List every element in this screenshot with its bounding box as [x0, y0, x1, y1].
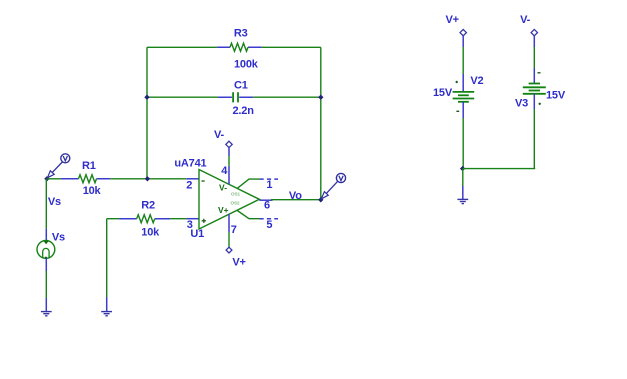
battery V2 — [453, 92, 475, 102]
svg-text:10k: 10k — [83, 185, 102, 197]
wire feedback top horizontal right part — [262, 46, 321, 48]
ground (supply) — [457, 199, 468, 203]
svg-text:V3: V3 — [515, 98, 528, 110]
svg-text:V2: V2 — [470, 75, 483, 87]
resistor R2 — [119, 215, 170, 223]
svg-text:V+: V+ — [232, 256, 245, 268]
wire C1 row right — [253, 96, 321, 98]
wire feedback right vertical — [320, 47, 322, 200]
battery V3 minus marker (dash) — [538, 72, 541, 74]
op-amp plus marker — [202, 219, 206, 223]
svg-text:15V: 15V — [546, 89, 566, 101]
battery V3 — [523, 84, 546, 94]
svg-text:Vs: Vs — [52, 232, 65, 244]
pin 1 elbow and dashed lead — [237, 179, 259, 188]
probe marker Vo output — [321, 173, 345, 199]
svg-text:OS2: OS2 — [231, 201, 241, 206]
pin 5 elbow and dashed lead — [237, 211, 259, 219]
svg-text:6: 6 — [264, 200, 270, 212]
wire feedback top horizontal left part — [147, 46, 217, 48]
capacitor C1 — [218, 92, 253, 102]
node junction C1 left — [144, 95, 149, 100]
battery V2 plus marker (dot) — [456, 81, 458, 83]
wire battery V3 down to bottom wire — [533, 94, 535, 109]
battery V3 plus marker (dot) — [539, 103, 541, 105]
ground (R2) — [101, 312, 112, 316]
source Vs pin bottom / wire to ground — [45, 258, 47, 271]
svg-text:R1: R1 — [82, 160, 96, 172]
wire battery V2 to junction — [462, 102, 464, 118]
op-amp U1 triangle — [199, 170, 259, 230]
svg-text:2: 2 — [186, 180, 192, 192]
wire R2 drop to ground — [106, 219, 108, 297]
wire R2 row — [107, 218, 119, 220]
svg-text:7: 7 — [231, 224, 237, 236]
wire supply ground stub — [462, 169, 464, 186]
wire input row — [47, 178, 61, 180]
svg-text:Vs: Vs — [48, 196, 61, 208]
node junction C1 right — [318, 95, 323, 100]
pin 6 output wire — [271, 199, 321, 201]
node junction output — [318, 197, 323, 202]
terminal V- (op-amp) diamond — [226, 141, 232, 147]
svg-text:V-: V- — [214, 129, 225, 141]
wire V+ to battery V2 — [462, 36, 464, 47]
pin 3 stub — [186, 218, 199, 220]
ground (Vs) — [41, 312, 52, 316]
pin 7 line — [228, 214, 230, 232]
wire R2 to op-amp — [170, 218, 186, 220]
wire Vs drop — [45, 179, 47, 229]
pin 6 stub — [259, 199, 272, 201]
pin 2 stub — [186, 178, 199, 180]
node junction input/feedback — [145, 176, 150, 181]
svg-text:V-: V- — [219, 183, 227, 193]
wire supply bottom horizontal — [463, 168, 536, 170]
wire V- to battery V3 — [533, 36, 535, 47]
op-amp minus marker — [202, 180, 205, 182]
resistor R1 — [61, 175, 110, 183]
pin 4 line — [228, 148, 230, 185]
svg-text:100k: 100k — [234, 58, 259, 70]
wire feedback top-left vertical — [146, 47, 148, 179]
wire R1 to op-amp — [110, 178, 186, 180]
svg-text:1: 1 — [266, 179, 272, 191]
terminal V+ (op-amp) diamond — [226, 247, 232, 253]
svg-text:OS1: OS1 — [231, 192, 241, 197]
svg-text:15V: 15V — [433, 87, 453, 99]
probe marker Vs input — [48, 154, 70, 178]
svg-text:2.2n: 2.2n — [233, 105, 255, 117]
svg-text:V+: V+ — [446, 14, 459, 26]
svg-text:5: 5 — [266, 219, 272, 231]
svg-text:Vo: Vo — [289, 190, 302, 202]
terminal V+ diamond — [460, 29, 466, 35]
source Vs (sine source) — [37, 241, 55, 259]
svg-text:V-: V- — [520, 14, 531, 26]
wire C1 row left — [147, 96, 218, 98]
svg-text:10k: 10k — [141, 227, 160, 239]
node A input junction — [44, 176, 49, 181]
svg-text:R3: R3 — [234, 27, 248, 39]
battery V2 minus marker (dash) — [456, 110, 459, 112]
terminal V- diamond — [531, 29, 537, 35]
svg-text:C1: C1 — [234, 79, 248, 91]
resistor R3 — [217, 43, 262, 51]
svg-text:V+: V+ — [218, 205, 229, 215]
svg-text:uA741: uA741 — [174, 157, 206, 169]
node junction supply — [460, 166, 465, 171]
svg-text:U1: U1 — [190, 228, 204, 240]
svg-text:R2: R2 — [141, 200, 155, 212]
source Vs pin top — [45, 229, 47, 241]
